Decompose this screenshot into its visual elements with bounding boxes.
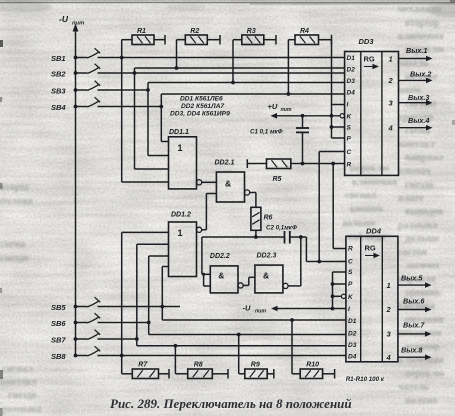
svg-text:R: R [347, 161, 352, 168]
svg-text:переклю: переклю [350, 163, 390, 174]
wire R8 left lead vertical to D3 line [175, 346, 187, 374]
svg-text:кнопоч: кнопоч [398, 166, 431, 177]
wire DD2.1 output to R6 [250, 193, 256, 208]
svg-text:переклю: переклю [405, 369, 445, 380]
node comb-S [330, 125, 334, 129]
svg-text:контакт: контакт [0, 377, 37, 388]
wire R7/SB8 vertical from DD1.2 input 1 [122, 232, 169, 373]
svg-text:4: 4 [388, 124, 394, 133]
wire output Vyh.8 arrow [398, 345, 432, 360]
svg-text:кнопоч: кнопоч [350, 204, 383, 215]
op-amp U DD1.1 4-input NOR gate [169, 129, 202, 189]
wire output Vyh.7 arrow [398, 321, 432, 337]
resistor R1 [132, 28, 154, 45]
svg-text:1: 1 [389, 54, 393, 63]
capacitor C2 [266, 225, 297, 244]
svg-text:C: C [348, 258, 353, 265]
wire DD4 S stub [333, 272, 346, 309]
svg-text:D1: D1 [347, 55, 356, 62]
svg-text:R: R [348, 245, 353, 252]
resistor R9 [245, 362, 267, 379]
svg-text:R6: R6 [264, 215, 273, 222]
svg-text:гнездо: гнездо [8, 390, 37, 401]
node SB3 pole on rail [74, 88, 78, 92]
node C2 right / DD2.3 output branch [299, 235, 303, 239]
svg-text:схема: схема [0, 239, 25, 250]
switch SB5 [51, 297, 100, 312]
svg-text:контакт: контакт [398, 139, 435, 150]
op-amp U DD2.3 NAND gate [255, 253, 288, 293]
wire SB8 row to DD4.D4 [98, 355, 346, 357]
wire SB4 vertical to DD1.1 input 1 [161, 94, 168, 142]
svg-text:R5: R5 [273, 176, 282, 183]
svg-text:SB3: SB3 [51, 87, 66, 96]
wire output Vyh.3 arrow [399, 93, 433, 106]
node R5 line to DD4.R branch [331, 162, 335, 166]
svg-text:Рис. 289. Переключатель на 8 п: Рис. 289. Переключатель на 8 положений [110, 396, 352, 411]
wire R5 left lead with tick [247, 159, 266, 168]
svg-text:D2: D2 [347, 67, 356, 74]
wire SB3 row [98, 89, 149, 91]
power label -Upit top [59, 14, 84, 27]
wire R9 right lead with tick [267, 369, 274, 379]
svg-text:ключения: ключения [398, 31, 444, 42]
node comb-K2 [331, 294, 335, 298]
svg-text:D4: D4 [348, 353, 357, 360]
svg-text:D4: D4 [347, 90, 356, 97]
node SB7 junction [135, 337, 139, 341]
wire R1 right lead with tick [154, 35, 165, 45]
wire R3 right lead with tick [264, 35, 276, 45]
svg-text:контакт: контакт [168, 2, 205, 13]
svg-text:SB5: SB5 [51, 303, 66, 312]
node SB5 junction [160, 305, 164, 309]
node R3-D3 [231, 81, 235, 85]
svg-text:R1: R1 [137, 28, 146, 35]
node SB5 pole on rail [74, 305, 78, 309]
resistor R3 [242, 28, 264, 45]
node clock junction [317, 260, 321, 264]
node C1 top [301, 114, 305, 118]
node SB2 pole on rail [74, 71, 78, 75]
svg-text:D1: D1 [348, 318, 357, 325]
power label +Upit [268, 102, 292, 113]
svg-text:R7: R7 [138, 362, 148, 369]
svg-text:2: 2 [388, 76, 394, 85]
svg-text:вторtop: вторtop [405, 18, 440, 29]
node SB1 pole on rail [74, 56, 78, 60]
svg-text:Вых.2: Вых.2 [410, 70, 431, 79]
svg-text:пит: пит [72, 21, 84, 27]
node comb-P [331, 282, 335, 286]
svg-text:S: S [347, 125, 352, 132]
op-amp U DD1.2 4-input NOR gate [169, 212, 202, 277]
wire R8 right lead with tick [212, 369, 228, 379]
node R7-SB8 junction [120, 354, 124, 358]
node SB4 junction [159, 105, 163, 109]
svg-text:размыка: размыка [398, 220, 438, 231]
svg-text:Вых.3: Вых.3 [408, 93, 429, 102]
svg-text:D3: D3 [347, 78, 356, 85]
svg-text:пит: пит [255, 309, 266, 315]
node SB8 pole on rail [74, 354, 78, 358]
node R4-D4 [287, 92, 291, 96]
wire RC node line (left segment) [202, 236, 285, 238]
svg-text:1: 1 [178, 143, 183, 153]
node DD2.2 tied inputs [202, 273, 205, 276]
svg-text:DD3, DD4 К561ИР9: DD3, DD4 К561ИР9 [170, 110, 230, 117]
svg-text:Вых.7: Вых.7 [403, 321, 425, 330]
svg-text:дальше: дальше [405, 234, 439, 245]
resistor R7 [132, 362, 158, 379]
svg-text:гнездо: гнездо [0, 253, 29, 264]
node SB6 junction [147, 321, 151, 325]
wire SB5 row [98, 306, 181, 308]
svg-text:2: 2 [386, 305, 392, 314]
wire D3 line to DD4.D3 [137, 345, 346, 347]
wire DD1.1 output to DD2.1 input 1 [202, 181, 217, 183]
node SB4 pole on rail [74, 105, 78, 109]
switch SB6 [51, 313, 100, 328]
svg-text:-U: -U [243, 304, 251, 313]
svg-text:D2: D2 [348, 330, 357, 337]
wire R2 right lead with tick [207, 35, 220, 45]
svg-text:DD2.3: DD2.3 [257, 253, 277, 260]
node SB7 pole on rail [74, 337, 78, 341]
svg-text:I: I [347, 101, 349, 108]
svg-text:1: 1 [387, 281, 391, 290]
svg-text:Вых.4: Вых.4 [408, 116, 429, 125]
switch SB7 [51, 330, 100, 345]
svg-text:DD1.1: DD1.1 [169, 129, 189, 136]
node R2-D2 [175, 66, 179, 70]
wire R9 left lead vertical to D2 line [239, 335, 245, 374]
svg-text:Вых.1: Вых.1 [406, 46, 427, 55]
wire SB7 vertical from DD1.2 input 2 [137, 244, 169, 345]
wire SB6 vertical from DD1.2 input 3 [149, 256, 169, 335]
svg-text:SB8: SB8 [51, 352, 66, 361]
wire output Vyh.5 arrow [398, 274, 432, 288]
node SB2 junction [133, 71, 137, 75]
wire R1 left lead [122, 39, 132, 41]
svg-text:чатель: чатель [398, 382, 429, 393]
wire SB7 row [98, 338, 138, 340]
svg-text:сигнал: сигнал [345, 190, 377, 201]
wire SB1 row to DD3.D1 [98, 57, 345, 59]
svg-text:1: 1 [178, 228, 183, 238]
svg-text:R1-R10 100 к: R1-R10 100 к [346, 376, 385, 383]
wire DD3 I stub [332, 104, 345, 106]
svg-text:-U: -U [59, 14, 69, 24]
svg-text:гнездо: гнездо [405, 180, 434, 191]
wire D3 line to DD3.D3 [148, 82, 345, 84]
switch SB8 [51, 346, 100, 361]
svg-text:состоя: состоя [398, 247, 427, 258]
svg-text:R4: R4 [300, 28, 309, 35]
resistor R8 [188, 362, 213, 379]
svg-text:&: & [263, 271, 269, 281]
svg-text:P: P [347, 136, 352, 143]
svg-text:R3: R3 [247, 28, 256, 35]
wire R4 left lead and vertical to D4 [288, 40, 295, 94]
resistor R6 [251, 207, 273, 230]
resistor R4 [295, 28, 319, 45]
op-amp U DD2.1 NAND gate [215, 160, 250, 203]
wire C2 right segment [290, 236, 307, 238]
svg-text:R9: R9 [251, 362, 260, 369]
svg-text:4: 4 [386, 353, 392, 362]
wire SB4 row [98, 106, 162, 108]
wire output Vyh.2 arrow [399, 70, 433, 84]
svg-text:DD3: DD3 [359, 37, 375, 46]
node SB3 junction [146, 88, 150, 92]
pin DD3 K inversion circle [340, 114, 344, 118]
svg-text:размыка: размыка [2, 404, 42, 415]
svg-text:Вых.8: Вых.8 [401, 345, 422, 354]
wire DD2.3 output up to C2 node [288, 237, 301, 286]
switch SB3 [51, 81, 100, 96]
resistor R5 [267, 159, 291, 183]
node comb to -Upit [331, 307, 335, 311]
svg-text:С1 0,1 мкФ: С1 0,1 мкФ [250, 129, 283, 136]
svg-text:S: S [348, 269, 353, 276]
wire D2 line to DD4.D2 [149, 334, 346, 336]
svg-text:P: P [348, 281, 353, 288]
wire R5 right to DD3.R [291, 163, 345, 165]
wire D1 line to DD4.D1 [162, 319, 346, 321]
wire SB6 row [98, 322, 150, 324]
svg-text:вторto: вторto [0, 182, 29, 193]
svg-text:плате: плате [398, 193, 424, 204]
svg-text:DD2.2: DD2.2 [210, 253, 230, 260]
svg-text:SB1: SB1 [51, 54, 66, 63]
svg-text:&: & [218, 271, 224, 281]
wire RC line down to DD2.2 inputs [202, 237, 210, 286]
op-amp U DD3 register K561IR9 [345, 37, 399, 175]
node SB6 pole on rail [74, 321, 78, 325]
wire DD3 S stub [332, 126, 345, 128]
svg-text:R10: R10 [306, 362, 319, 369]
node R6-RC line [254, 235, 258, 239]
svg-text:логичес: логичес [405, 261, 441, 272]
switch SB2 [51, 64, 100, 79]
svg-text:+U: +U [268, 102, 278, 111]
svg-text:выводов: выводов [405, 207, 444, 218]
svg-text:SB2: SB2 [51, 70, 66, 79]
svg-text:С2 0,1мкФ: С2 0,1мкФ [266, 225, 297, 232]
node R10-D1 [290, 318, 294, 322]
wire output Vyh.6 arrow [398, 297, 432, 313]
pin DD4 K inversion circle [341, 294, 345, 298]
wire DD4 P stub [333, 283, 346, 285]
svg-text:DD1 К561ЛЕ6: DD1 К561ЛЕ6 [180, 96, 223, 103]
capacitor C1 [250, 116, 309, 164]
wire R2 left lead and vertical to D2 [177, 40, 186, 68]
svg-text:RG: RG [365, 244, 376, 253]
svg-text:D3: D3 [348, 342, 357, 349]
svg-text:Вых.6: Вых.6 [403, 297, 425, 306]
switch SB4 [51, 97, 100, 112]
wire SB2 row [98, 72, 345, 74]
wire D2 line to DD3.D2 [135, 67, 345, 69]
svg-text:пит: пит [281, 107, 292, 113]
svg-text:чатель: чатель [398, 58, 429, 69]
op-amp U DD4 register K561IR9 [346, 227, 398, 362]
wire DD3 P stub [332, 137, 345, 139]
wire +Upit arrow line to DD3.K [271, 113, 341, 119]
switch SB1 [51, 48, 100, 63]
svg-text:положе: положе [0, 196, 33, 207]
svg-text:&: & [225, 179, 231, 189]
wire R10 right lead with tick [323, 369, 335, 379]
-Upit rail with up arrow [73, 24, 79, 357]
wire clock line to DD4.C [306, 237, 346, 262]
svg-text:DD1.2: DD1.2 [171, 212, 191, 219]
wire R4 right lead down to +Upit rail and DD3 I,K,S,P comb [319, 35, 332, 138]
wire SB3 vertical to DD1.1 input 2 [148, 83, 169, 156]
svg-text:R2: R2 [190, 28, 199, 35]
svg-text:ключения: ключения [352, 177, 398, 188]
svg-text:SB4: SB4 [51, 103, 66, 112]
node C1-R5 [301, 162, 305, 166]
wire DD1.2 output up to DD2.1 input 2 [202, 194, 217, 230]
svg-text:I: I [348, 306, 350, 313]
svg-text:SB6: SB6 [51, 319, 66, 328]
svg-text:C: C [347, 149, 352, 156]
svg-text:SB7: SB7 [51, 336, 66, 345]
svg-text:положе: положе [405, 396, 438, 407]
wire DD3.C down to clock line [319, 152, 344, 262]
svg-text:R8: R8 [194, 362, 203, 369]
wire R7 right lead with tick [159, 369, 170, 379]
wire output Vyh.1 arrow [399, 46, 433, 61]
svg-text:DD4: DD4 [366, 227, 382, 236]
node R9-D2 [237, 333, 241, 337]
wire -Upit arrow line to DD4.I [271, 306, 346, 312]
resistor R2 [185, 28, 207, 45]
power label -Upit bottom [243, 304, 267, 315]
svg-text:DD2 К561ЛА7: DD2 К561ЛА7 [181, 103, 224, 110]
svg-text:Вых.5: Вых.5 [401, 274, 423, 283]
wire output Vyh.4 arrow [399, 116, 433, 131]
resistor R10 [300, 362, 322, 379]
wire R3 left lead and vertical to D3 [233, 40, 242, 83]
wire DD2.2 output to DD2.3 inputs [243, 277, 255, 285]
wire R6 bottom to RC node [255, 230, 257, 237]
svg-text:RG: RG [364, 55, 375, 64]
wire down to DD4.R [333, 164, 346, 249]
node comb-K junction [330, 114, 334, 118]
wire R10 left lead vertical to D1 line [292, 320, 300, 374]
wire DD4 K stub [333, 295, 342, 297]
wire SB2 vertical to DD1.1 input 3 [135, 68, 169, 169]
op-amp U DD2.2 NAND gate [210, 253, 243, 293]
wire SB5 vertical from DD1.2 input 4 [162, 267, 168, 321]
svg-text:напряже: напряже [405, 153, 444, 164]
node R8-D3 [174, 344, 178, 348]
svg-text:сигнал: сигнал [2, 364, 34, 375]
wire D4 line to DD3.D4 [161, 93, 344, 95]
svg-text:DD2.1: DD2.1 [215, 160, 235, 167]
wire R1/SB1 vertical to DD1.1 input 4 [122, 40, 169, 183]
node R1-SB1 junction [120, 56, 124, 60]
